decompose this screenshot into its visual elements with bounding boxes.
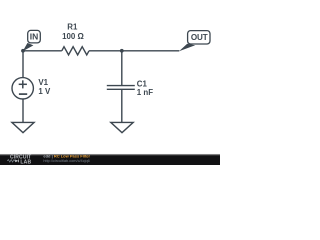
svg-text:C1: C1 [137, 79, 148, 88]
svg-text:OUT: OUT [191, 33, 208, 42]
svg-text:IN: IN [30, 32, 39, 42]
svg-text:1 nF: 1 nF [137, 88, 153, 97]
svg-text:http://circuitlab.com/c/4cjq6: http://circuitlab.com/c/4cjq6 [43, 159, 89, 163]
svg-text:R1: R1 [67, 23, 78, 32]
svg-text:100 Ω: 100 Ω [62, 32, 84, 41]
svg-text:edd | RC Low Pass Filter: edd | RC Low Pass Filter [43, 153, 90, 158]
svg-text:LAB: LAB [20, 159, 31, 165]
svg-text:V1: V1 [38, 78, 48, 87]
svg-text:1 V: 1 V [38, 87, 51, 96]
